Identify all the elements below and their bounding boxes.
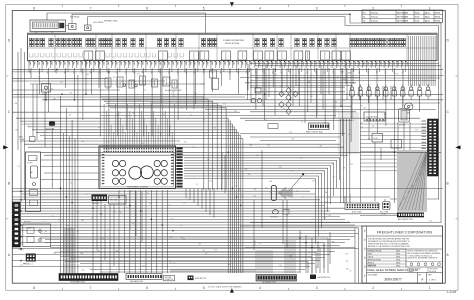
svg-text:86F: 86F xyxy=(154,62,156,65)
diode pack D1-D7 xyxy=(279,88,298,115)
svg-text:C13: C13 xyxy=(137,73,140,75)
svg-text:57B: 57B xyxy=(249,145,252,147)
svg-text:44F: 44F xyxy=(258,62,260,65)
svg-text:REV: REV xyxy=(364,238,366,241)
svg-text:1 OF 4: 1 OF 4 xyxy=(429,279,436,281)
svg-text:140: 140 xyxy=(209,180,212,182)
svg-text:79F: 79F xyxy=(150,62,152,65)
svg-text:140: 140 xyxy=(45,231,48,233)
svg-text:23F: 23F xyxy=(372,126,375,128)
svg-text:5: 5 xyxy=(203,6,205,10)
svg-text:57B: 57B xyxy=(173,83,176,85)
svg-text:44F: 44F xyxy=(42,62,44,65)
svg-text:E2: E2 xyxy=(228,264,230,266)
svg-text:81K: 81K xyxy=(190,115,193,117)
harness shading left xyxy=(64,228,75,273)
svg-text:37F: 37F xyxy=(340,62,342,65)
svg-text:86F: 86F xyxy=(284,62,286,65)
svg-text:86F: 86F xyxy=(111,62,113,65)
svg-text:E2: E2 xyxy=(343,157,345,159)
svg-text:E2: E2 xyxy=(77,232,79,234)
svg-text:51F: 51F xyxy=(262,62,264,65)
mux box xyxy=(30,137,36,142)
svg-text:23F: 23F xyxy=(198,244,201,246)
svg-text:294: 294 xyxy=(119,212,122,214)
svg-text:51F: 51F xyxy=(176,62,178,65)
instrument cluster pin header J1 xyxy=(176,148,182,188)
svg-text:E2: E2 xyxy=(98,127,100,129)
svg-text:86F: 86F xyxy=(371,62,373,65)
svg-text:23F: 23F xyxy=(288,62,290,65)
speedo module xyxy=(109,196,127,205)
svg-text:SHEET: SHEET xyxy=(428,274,433,276)
svg-text:WRS-R: WRS-R xyxy=(435,12,441,14)
svg-text:86F: 86F xyxy=(327,62,329,65)
firewall connector C2 xyxy=(23,254,36,266)
svg-text:294: 294 xyxy=(181,108,184,110)
svg-text:C13: C13 xyxy=(267,145,270,147)
svg-text:C13: C13 xyxy=(279,265,282,267)
staircase bundle B (cluster to right) xyxy=(184,158,340,244)
svg-text:86F: 86F xyxy=(241,62,243,65)
svg-text:R0: R0 xyxy=(363,12,365,14)
scattered wire code labels xyxy=(14,71,433,272)
svg-text:C13: C13 xyxy=(202,250,205,252)
svg-text:57B: 57B xyxy=(171,219,174,221)
svg-text:81K: 81K xyxy=(258,243,261,245)
svg-text:9/0/04: 9/0/04 xyxy=(415,12,420,14)
horn button connector xyxy=(188,276,206,281)
svg-text:30F: 30F xyxy=(76,62,78,65)
svg-text:30F: 30F xyxy=(293,62,295,65)
switch module xyxy=(46,122,55,131)
svg-text:81K: 81K xyxy=(248,174,251,176)
svg-text:C13: C13 xyxy=(172,96,175,98)
svg-text:23F: 23F xyxy=(159,62,161,65)
horn button splice xyxy=(310,275,330,280)
svg-text:REV: REV xyxy=(364,274,366,277)
relay K2 (ACC) xyxy=(85,25,92,31)
svg-text:294: 294 xyxy=(194,93,197,95)
svg-text:51F: 51F xyxy=(306,62,308,65)
cluster feed wire stubs xyxy=(104,104,175,148)
svg-text:E2: E2 xyxy=(326,202,328,204)
optional connector box xyxy=(164,276,175,282)
svg-text:58F: 58F xyxy=(310,62,312,65)
svg-text:E2: E2 xyxy=(361,106,363,108)
revision history table xyxy=(362,10,443,23)
svg-text:23F: 23F xyxy=(21,124,24,126)
svg-text:72F: 72F xyxy=(405,62,407,65)
svg-text:140: 140 xyxy=(23,263,26,265)
svg-text:57B: 57B xyxy=(69,115,72,117)
svg-text:72F: 72F xyxy=(319,62,321,65)
svg-text:E2: E2 xyxy=(147,193,149,195)
svg-text:65F: 65F xyxy=(314,62,316,65)
svg-text:79F: 79F xyxy=(366,62,368,65)
svg-text:57B: 57B xyxy=(343,100,346,102)
svg-text:23F: 23F xyxy=(115,62,117,65)
svg-text:23F: 23F xyxy=(328,215,331,217)
svg-text:3: 3 xyxy=(316,6,318,10)
svg-text:23F: 23F xyxy=(265,120,268,122)
svg-text:57B: 57B xyxy=(69,93,72,95)
PDM fuse cavity symbols xyxy=(29,38,405,46)
blower resistor assembly xyxy=(105,76,182,92)
svg-text:81K: 81K xyxy=(213,128,216,130)
svg-text:37F: 37F xyxy=(167,62,169,65)
svg-text:51F: 51F xyxy=(392,62,394,65)
svg-text:INSTRUMENT CLUSTER: INSTRUMENT CLUSTER xyxy=(127,186,148,188)
svg-text:140: 140 xyxy=(141,143,144,145)
svg-text:81K: 81K xyxy=(51,88,54,90)
svg-text:ECN 04-0: ECN 04-0 xyxy=(371,12,378,14)
svg-text:44F: 44F xyxy=(172,62,174,65)
svg-text:81K: 81K xyxy=(214,250,217,252)
svg-text:140: 140 xyxy=(115,199,118,201)
svg-text:6: 6 xyxy=(146,286,148,290)
cigar lighter socket xyxy=(399,109,410,127)
svg-text:79F: 79F xyxy=(323,62,325,65)
svg-text:C13: C13 xyxy=(207,159,210,161)
svg-text:44F: 44F xyxy=(345,62,347,65)
grid row letters xyxy=(8,38,450,256)
vertical wire runs xyxy=(18,48,420,283)
svg-text:294: 294 xyxy=(274,74,277,76)
taped harness bundle (shaded) xyxy=(397,150,427,212)
svg-text:57B: 57B xyxy=(51,216,54,218)
svg-text:72F: 72F xyxy=(275,62,277,65)
relay K1 (IGN) xyxy=(69,24,77,30)
svg-text:81K: 81K xyxy=(130,191,133,193)
svg-text:37F: 37F xyxy=(81,62,83,65)
svg-text:E2: E2 xyxy=(203,120,205,122)
svg-text:UNLESS OTHERWISE NOTED DIMENS: UNLESS OTHERWISE NOTED DIMENSIONS xyxy=(408,251,438,253)
svg-text:2: 2 xyxy=(372,286,374,290)
svg-text:37F: 37F xyxy=(254,62,256,65)
svg-text:51F: 51F xyxy=(89,62,91,65)
svg-text:C13: C13 xyxy=(349,130,352,132)
svg-text:294: 294 xyxy=(302,197,305,199)
svg-text:30F: 30F xyxy=(336,62,338,65)
svg-text:23F: 23F xyxy=(245,169,248,171)
svg-text:140: 140 xyxy=(287,95,290,97)
svg-text:81K: 81K xyxy=(364,108,367,110)
left equipment box (voltage converter / battery) xyxy=(26,152,41,212)
svg-text:9/1/04: 9/1/04 xyxy=(415,16,420,18)
svg-text:81K: 81K xyxy=(279,166,282,168)
svg-text:65F: 65F xyxy=(271,62,273,65)
svg-text:294: 294 xyxy=(125,208,128,210)
svg-text:30F: 30F xyxy=(206,62,208,65)
svg-text:44F: 44F xyxy=(388,62,390,65)
svg-text:C13: C13 xyxy=(348,134,351,136)
svg-text:DO NOT SCALE DWG IF THE DRAWIN: DO NOT SCALE DWG IF THE DRAWING xyxy=(208,285,242,288)
svg-text:8: 8 xyxy=(33,6,35,10)
svg-text:58F: 58F xyxy=(397,62,399,65)
svg-text:140: 140 xyxy=(205,105,208,107)
svg-text:57B: 57B xyxy=(68,229,71,231)
svg-text:37F: 37F xyxy=(211,62,213,65)
wire top feeder 1 xyxy=(72,14,441,222)
svg-text:81K: 81K xyxy=(415,129,418,131)
svg-text:57B: 57B xyxy=(395,73,398,75)
svg-text:72F: 72F xyxy=(59,62,61,65)
svg-text:72F: 72F xyxy=(102,62,104,65)
svg-text:23F: 23F xyxy=(375,62,377,65)
svg-text:294: 294 xyxy=(335,101,338,103)
svg-text:44F: 44F xyxy=(215,62,217,65)
svg-text:5: 5 xyxy=(203,286,205,290)
svg-text:B: B xyxy=(447,181,449,185)
svg-text:51F: 51F xyxy=(219,62,221,65)
svg-text:23F: 23F xyxy=(132,223,135,225)
svg-text:A-4128: A-4128 xyxy=(447,290,457,294)
svg-text:CONNECTOR: CONNECTOR xyxy=(165,279,174,281)
svg-text:294: 294 xyxy=(253,196,256,198)
svg-text:30F: 30F xyxy=(163,62,165,65)
svg-text:79F: 79F xyxy=(236,62,238,65)
svg-text:R2: R2 xyxy=(363,21,365,23)
svg-text:81K: 81K xyxy=(240,196,243,198)
svg-text:51F: 51F xyxy=(133,62,135,65)
svg-text:C13: C13 xyxy=(138,223,141,225)
main cab harness connector (tall) xyxy=(428,119,439,176)
svg-text:DWG NUMBER: DWG NUMBER xyxy=(368,274,378,276)
svg-text:23F: 23F xyxy=(72,62,74,65)
PDM wire number labels row2 xyxy=(29,71,404,75)
PDM output wire stubs xyxy=(28,61,407,72)
svg-text:R1: R1 xyxy=(363,16,365,18)
svg-text:23F: 23F xyxy=(183,203,186,205)
tow oval xyxy=(270,210,289,219)
wire top feeder 6 xyxy=(51,32,53,35)
svg-text:65F: 65F xyxy=(55,62,57,65)
svg-text:4: 4 xyxy=(259,286,261,290)
svg-text:30F: 30F xyxy=(379,62,381,65)
svg-text:23F: 23F xyxy=(332,62,334,65)
svg-text:ECN 04-1: ECN 04-1 xyxy=(371,16,378,18)
rt grn box xyxy=(391,140,402,149)
svg-text:E2: E2 xyxy=(134,216,136,218)
svg-text:58F: 58F xyxy=(137,62,139,65)
svg-text:72F: 72F xyxy=(189,62,191,65)
svg-text:81K: 81K xyxy=(172,91,175,93)
svg-text:3: 3 xyxy=(316,286,318,290)
svg-text:E2: E2 xyxy=(321,133,323,135)
svg-text:86F: 86F xyxy=(68,62,70,65)
svg-text:44F: 44F xyxy=(301,62,303,65)
svg-text:58F: 58F xyxy=(180,62,182,65)
svg-text:81K: 81K xyxy=(429,221,432,223)
svg-text:37F: 37F xyxy=(124,62,126,65)
svg-text:86F: 86F xyxy=(198,62,200,65)
ign sw box xyxy=(210,70,219,89)
svg-text:140: 140 xyxy=(43,222,46,224)
svg-text:72F: 72F xyxy=(362,62,364,65)
svg-text:72F: 72F xyxy=(146,62,148,65)
svg-text:ECN 04-2: ECN 04-2 xyxy=(371,21,378,23)
svg-text:57B: 57B xyxy=(342,167,345,169)
svg-text:23F: 23F xyxy=(202,62,204,65)
PDM relay cavities xyxy=(84,51,350,60)
svg-text:23F: 23F xyxy=(308,252,311,254)
svg-text:81K: 81K xyxy=(223,104,226,106)
svg-text:C13: C13 xyxy=(73,259,76,261)
svg-text:58F: 58F xyxy=(353,62,355,65)
svg-text:C13: C13 xyxy=(285,214,288,216)
svg-text:23F: 23F xyxy=(315,231,318,233)
svg-text:140: 140 xyxy=(310,96,313,98)
svg-text:81K: 81K xyxy=(201,83,204,85)
svg-text:30F: 30F xyxy=(120,62,122,65)
svg-text:294: 294 xyxy=(70,183,73,185)
svg-text:65F: 65F xyxy=(401,62,403,65)
svg-text:57B: 57B xyxy=(38,77,41,79)
svg-text:C13: C13 xyxy=(66,251,69,253)
pointer arrow annotation xyxy=(278,187,293,199)
svg-text:65F: 65F xyxy=(141,62,143,65)
svg-text:81K: 81K xyxy=(298,92,301,94)
svg-text:V.CONV: V.CONV xyxy=(27,163,33,165)
svg-text:E2: E2 xyxy=(337,77,339,79)
svg-text:57B: 57B xyxy=(15,130,18,132)
svg-text:44F: 44F xyxy=(128,62,130,65)
staircase bundle A (upper-left to bottom-center) xyxy=(16,118,243,273)
svg-text:23F: 23F xyxy=(345,254,348,256)
svg-text:294: 294 xyxy=(209,114,212,116)
svg-text:23F: 23F xyxy=(238,189,241,191)
svg-text:140: 140 xyxy=(300,157,303,159)
svg-text:57B: 57B xyxy=(53,99,56,101)
svg-text:294: 294 xyxy=(312,181,315,183)
svg-text:6: 6 xyxy=(146,6,148,10)
svg-text:23F: 23F xyxy=(332,164,335,166)
wire top feeder 5 xyxy=(35,32,37,35)
svg-text:57B: 57B xyxy=(184,141,187,143)
staircase bundle A2 (mid to cluster-right bus) xyxy=(100,97,226,190)
svg-text:140: 140 xyxy=(360,122,363,124)
svg-text:C13: C13 xyxy=(235,185,238,187)
svg-text:294: 294 xyxy=(185,198,188,200)
aux connector xyxy=(268,124,278,129)
svg-text:IGN RELAY: IGN RELAY xyxy=(70,16,80,19)
svg-text:E2: E2 xyxy=(54,123,56,125)
right-end harness bundle through strip xyxy=(409,36,436,86)
svg-text:140: 140 xyxy=(44,88,47,90)
power distribution module strip outline xyxy=(28,33,438,60)
svg-text:C13: C13 xyxy=(332,176,335,178)
svg-text:81K: 81K xyxy=(170,236,173,238)
battery terminal block TB xyxy=(30,20,66,35)
wire top feeder 3 xyxy=(66,25,69,27)
svg-text:140: 140 xyxy=(162,114,165,116)
svg-text:57B: 57B xyxy=(81,270,84,272)
svg-text:E2: E2 xyxy=(230,170,232,172)
data link connector xyxy=(92,195,108,206)
svg-text:ACC RELAY: ACC RELAY xyxy=(94,21,105,24)
svg-text:140: 140 xyxy=(113,77,116,79)
svg-text:79F: 79F xyxy=(107,62,109,65)
engine harness connector xyxy=(126,274,162,284)
svg-text:E2: E2 xyxy=(196,184,198,186)
svg-text:C13: C13 xyxy=(143,90,146,92)
svg-text:WRS-R: WRS-R xyxy=(435,16,441,18)
svg-text:58F: 58F xyxy=(50,62,52,65)
buzzer B1 xyxy=(251,98,261,102)
svg-text:7: 7 xyxy=(90,6,92,10)
svg-text:23F: 23F xyxy=(346,261,349,263)
svg-text:E2: E2 xyxy=(35,159,37,161)
svg-text:81K: 81K xyxy=(299,233,302,235)
grid column numbers xyxy=(33,6,431,290)
svg-text:E2: E2 xyxy=(312,219,314,221)
PDM wire number labels row1 xyxy=(29,62,408,65)
svg-text:58F: 58F xyxy=(267,62,269,65)
accessory connector xyxy=(380,202,390,216)
svg-text:140: 140 xyxy=(87,74,90,76)
svg-text:65F: 65F xyxy=(228,62,230,65)
tall connector pin labels xyxy=(422,121,427,174)
harness shading center xyxy=(255,250,273,273)
svg-text:E2: E2 xyxy=(308,81,310,83)
svg-text:140: 140 xyxy=(368,138,371,140)
wire junction dots xyxy=(20,13,395,261)
svg-text:57B: 57B xyxy=(76,212,79,214)
svg-text:58F: 58F xyxy=(224,62,226,65)
svg-text:23F: 23F xyxy=(350,164,353,166)
svg-text:23F: 23F xyxy=(20,265,23,267)
svg-text:9/2/04: 9/2/04 xyxy=(415,21,420,23)
svg-text:81K: 81K xyxy=(149,203,152,205)
svg-text:294: 294 xyxy=(291,171,294,173)
svg-text:81K: 81K xyxy=(102,238,105,240)
staircase bundle C (bottom-center) xyxy=(40,238,328,273)
bulkhead connector block (left) xyxy=(13,202,21,247)
svg-text:BULK CONN: BULK CONN xyxy=(352,211,362,213)
svg-text:23F: 23F xyxy=(166,135,169,137)
harness shading mid xyxy=(284,240,296,273)
svg-text:E2: E2 xyxy=(181,225,183,227)
svg-text:REV: REV xyxy=(364,265,366,268)
clearance lamp oval xyxy=(402,103,413,115)
lt grn box xyxy=(372,134,383,143)
horizontal wire runs xyxy=(13,63,444,272)
svg-text:140: 140 xyxy=(17,166,20,168)
svg-text:23F: 23F xyxy=(314,252,317,254)
svg-text:23F: 23F xyxy=(269,191,272,193)
svg-text:140: 140 xyxy=(170,261,173,263)
svg-text:294: 294 xyxy=(113,212,116,214)
svg-text:7: 7 xyxy=(90,286,92,290)
svg-text:294: 294 xyxy=(253,241,256,243)
svg-text:51F: 51F xyxy=(46,62,48,65)
svg-text:E2: E2 xyxy=(86,194,88,196)
svg-text:C13: C13 xyxy=(430,77,433,79)
hvac control connector xyxy=(306,123,329,134)
svg-text:57B: 57B xyxy=(141,118,144,120)
harness shading bottom bus xyxy=(170,269,256,272)
svg-text:REV: REV xyxy=(364,229,366,232)
svg-text:65F: 65F xyxy=(185,62,187,65)
svg-text:57B: 57B xyxy=(117,114,120,116)
svg-text:65F: 65F xyxy=(358,62,360,65)
svg-text:294: 294 xyxy=(254,189,257,191)
svg-text:E2: E2 xyxy=(206,253,208,255)
svg-text:72F: 72F xyxy=(232,62,234,65)
svg-text:3000-29077: 3000-29077 xyxy=(384,278,402,282)
svg-text:23F: 23F xyxy=(20,250,23,252)
